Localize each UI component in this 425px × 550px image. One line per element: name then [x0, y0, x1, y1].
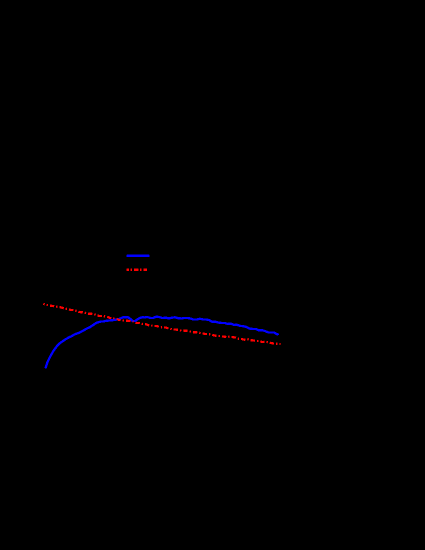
- legend handle: red dash-dot line: [127, 269, 147, 271]
- legend handle: blue solid line: [127, 255, 149, 257]
- blue data curve: [46, 317, 278, 369]
- red dash-dot reference curve: [44, 304, 281, 344]
